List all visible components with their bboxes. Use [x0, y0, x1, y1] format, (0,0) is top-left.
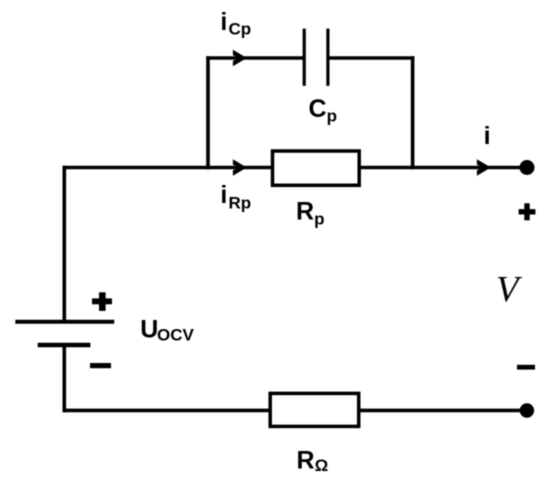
resistor R_p: [273, 151, 360, 185]
svg-text:UOCV: UOCV: [140, 316, 194, 345]
output minus sign: [517, 365, 535, 370]
battery U_OCV: long positive plate: [15, 320, 114, 324]
svg-text:i: i: [484, 122, 491, 150]
wire: left vertical from middle wire down to battery + plate: [63, 166, 67, 322]
wire: left vertical from battery - plate down to bottom wire: [63, 345, 67, 412]
capacitor C_p: [304, 29, 328, 86]
node: positive output terminal dot: [520, 160, 535, 175]
svg-text:RΩ: RΩ: [297, 446, 329, 475]
node: negative output terminal dot: [520, 403, 534, 417]
battery plus sign: [92, 292, 112, 311]
svg-text:iCp: iCp: [220, 8, 251, 39]
wire: top branch horizontal, right of Cp: [328, 56, 414, 60]
current arrow i toward positive terminal: [477, 159, 491, 176]
svg-text:Rp: Rp: [296, 198, 324, 229]
svg-text:Cp: Cp: [309, 95, 337, 126]
current arrow i_Cp on top wire: [233, 50, 247, 67]
wire: middle horizontal from left vertical to Rp: [63, 166, 273, 170]
wire: bottom horizontal from R_ohm to negative terminal: [359, 409, 524, 413]
battery U_OCV: short negative plate: [38, 343, 91, 348]
wire: bottom horizontal from battery to R_ohm: [63, 409, 271, 413]
wire: top branch right vertical down to node B: [411, 56, 415, 169]
svg-text:V: V: [496, 270, 523, 311]
resistor R_ohm: [270, 393, 359, 426]
wire: middle horizontal from Rp to positive terminal: [359, 166, 524, 170]
output plus sign: [519, 203, 536, 220]
battery minus sign: [90, 363, 111, 368]
svg-text:iRp: iRp: [220, 181, 251, 212]
wire: top branch horizontal, left of Cp: [206, 56, 304, 60]
wire: top branch left vertical (node A up to Cp branch): [206, 56, 210, 169]
current arrow i_Rp on middle wire: [233, 159, 247, 176]
